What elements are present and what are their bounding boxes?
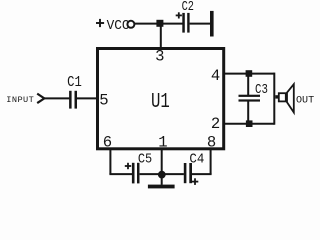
svg-text:1: 1	[158, 133, 167, 151]
svg-text:2: 2	[211, 115, 220, 133]
svg-text:INPUT: INPUT	[6, 95, 34, 105]
svg-text:C1: C1	[67, 75, 82, 91]
svg-text:C4: C4	[189, 152, 204, 168]
svg-text:U1: U1	[151, 90, 170, 114]
svg-text:8: 8	[207, 133, 216, 151]
svg-text:6: 6	[103, 133, 112, 151]
svg-text:C2: C2	[182, 0, 194, 15]
svg-text:C5: C5	[138, 153, 152, 168]
svg-text:VCC: VCC	[107, 19, 130, 34]
svg-text:C3: C3	[255, 83, 268, 98]
svg-text:OUT: OUT	[296, 96, 314, 107]
svg-text:5: 5	[99, 91, 108, 109]
svg-text:3: 3	[155, 47, 164, 65]
svg-text:4: 4	[211, 67, 220, 85]
